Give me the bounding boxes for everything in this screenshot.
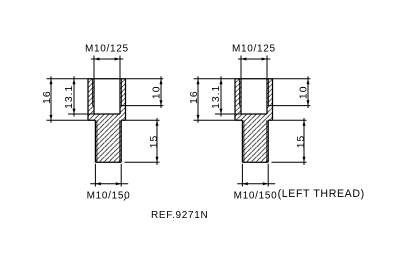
right stud coupler (left-hand thread): dimension M10/125 extension lines <box>241 56 267 79</box>
svg-text:16: 16 <box>189 90 200 104</box>
svg-text:M10/125: M10/125 <box>232 44 276 55</box>
svg-text:16: 16 <box>42 90 53 104</box>
left stud coupler: top extension lines (dims 16 / 10) <box>47 78 164 80</box>
left stud coupler: dimension M10/125 line + arrows <box>91 58 123 60</box>
svg-text:10: 10 <box>299 86 310 100</box>
svg-text:15: 15 <box>149 135 160 149</box>
left stud coupler: internal thread major-dia thin lines <box>93 79 122 106</box>
right stud coupler (left-hand thread): body (head) outline <box>235 79 273 121</box>
left stud coupler: dimension 13.1 (hole depth) <box>68 76 94 116</box>
right stud coupler (left-hand thread): external thread minor-dia thin lines <box>244 120 267 162</box>
svg-text:(LEFT THREAD): (LEFT THREAD) <box>278 188 365 200</box>
right stud coupler (left-hand thread): section hatching <box>235 79 273 162</box>
right stud coupler (left-hand thread): dimension 13.1 (hole depth) <box>215 76 241 116</box>
left stud coupler: threaded stud M10/150 outline <box>95 120 121 162</box>
left stud coupler: dimension M10/150 extension lines <box>95 164 121 187</box>
left stud coupler: dimension 16 (head depth) <box>47 76 89 123</box>
left stud coupler: threaded hole M10/125 (minor dia + bottom) <box>94 79 120 114</box>
svg-text:M10/125: M10/125 <box>85 44 129 55</box>
svg-text:REF.9271N: REF.9271N <box>151 210 208 221</box>
right stud coupler (left-hand thread): dimension 15 (stud length) <box>272 118 307 165</box>
right stud coupler (left-hand thread): threaded hole M10/125 (minor dia + bottom) <box>241 79 267 114</box>
right stud coupler (left-hand thread): internal thread major-dia thin lines <box>240 79 269 106</box>
right stud coupler (left-hand thread): dimension M10/150 extension lines <box>242 164 268 187</box>
right stud coupler (left-hand thread): dimension M10/125 line + arrows <box>238 58 270 60</box>
left stud coupler: dimension 15 (stud length) <box>125 118 160 165</box>
svg-text:13.1: 13.1 <box>64 85 75 109</box>
svg-text:13.1: 13.1 <box>211 85 222 109</box>
left stud coupler: dimension M10/150 line + arrows <box>90 183 128 185</box>
left stud coupler: tail mark on last zero <box>124 198 126 201</box>
right stud coupler (left-hand thread): dimension M10/150 line + arrows <box>237 183 275 185</box>
svg-text:M10/150: M10/150 <box>234 190 278 201</box>
left stud coupler: dimension M10/125 extension lines <box>94 56 120 79</box>
right stud coupler (left-hand thread): dimension 10 (thread depth) <box>268 76 310 108</box>
left stud coupler: dimension 10 (thread depth) <box>121 76 163 108</box>
svg-text:15: 15 <box>296 135 307 149</box>
right stud coupler (left-hand thread): dimension 16 (head depth) <box>194 76 236 123</box>
svg-text:10: 10 <box>152 86 163 100</box>
right stud coupler (left-hand thread): top extension lines (dims 16 / 10) <box>194 78 311 80</box>
right stud coupler (left-hand thread): threaded stud M10/150 outline <box>242 120 268 162</box>
left stud coupler: external thread minor-dia thin lines <box>97 120 120 162</box>
svg-text:M10/150: M10/150 <box>87 190 131 201</box>
left stud coupler: body (head) outline <box>88 79 126 121</box>
left stud coupler: section hatching <box>88 79 126 162</box>
